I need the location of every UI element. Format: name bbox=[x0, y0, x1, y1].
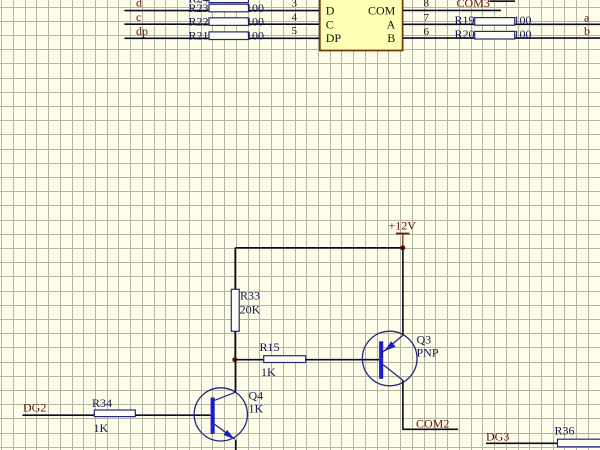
svg-text:DG3: DG3 bbox=[486, 430, 509, 444]
svg-text:DG2: DG2 bbox=[23, 401, 46, 415]
resistor R22 bbox=[189, 15, 265, 29]
wire rail down to R33 bbox=[234, 248, 236, 290]
wire +12V rail down to Q3 emitter bbox=[402, 248, 404, 335]
svg-text:B: B bbox=[387, 31, 395, 45]
resistor R36 bbox=[555, 423, 600, 447]
svg-text:20K: 20K bbox=[240, 303, 261, 317]
svg-text:b: b bbox=[584, 24, 590, 38]
svg-text:5: 5 bbox=[292, 25, 298, 37]
wire R15 to Q3 base bbox=[306, 359, 379, 361]
svg-text:R22: R22 bbox=[189, 15, 209, 29]
svg-text:R33: R33 bbox=[240, 289, 260, 303]
transistor Q3 PNP bbox=[362, 331, 438, 386]
junction at R15/R33/Q4 bbox=[232, 357, 237, 362]
svg-text:COM3: COM3 bbox=[457, 0, 490, 10]
transistor Q4 NPN bbox=[194, 388, 263, 441]
svg-text:100: 100 bbox=[514, 27, 532, 41]
svg-text:Q3: Q3 bbox=[417, 332, 432, 346]
svg-text:C: C bbox=[326, 17, 334, 31]
svg-text:DP: DP bbox=[326, 31, 342, 45]
wire DG3 to R36 bbox=[486, 442, 558, 444]
svg-text:8: 8 bbox=[424, 0, 430, 10]
svg-text:1K: 1K bbox=[94, 421, 109, 435]
power +12V bbox=[389, 219, 417, 248]
resistor R15 bbox=[260, 340, 306, 379]
svg-text:R20: R20 bbox=[455, 27, 475, 41]
svg-text:7: 7 bbox=[424, 12, 430, 24]
svg-text:100: 100 bbox=[246, 29, 264, 43]
svg-text:100: 100 bbox=[246, 1, 264, 15]
resistor R20 bbox=[455, 27, 532, 41]
junction at +12V rail bbox=[400, 245, 405, 250]
resistor R23 bbox=[189, 1, 265, 15]
wire d row bbox=[124, 10, 320, 12]
svg-text:COM2: COM2 bbox=[416, 416, 449, 430]
wire a row bbox=[403, 23, 600, 25]
wire Q4 collector up to junction bbox=[234, 360, 236, 393]
svg-text:d: d bbox=[136, 0, 142, 10]
wire junction to R15 bbox=[235, 359, 264, 361]
resistor R19 bbox=[455, 13, 532, 27]
svg-text:dp: dp bbox=[136, 24, 148, 38]
resistor R21 bbox=[189, 29, 265, 43]
partial resistor R24 (cut off at top) bbox=[189, 0, 249, 6]
wire Q3 collector down and COM2 bbox=[403, 380, 458, 429]
wire top rail horizontal bbox=[235, 247, 403, 249]
wire c row bbox=[124, 23, 320, 25]
wire dp row bbox=[124, 37, 320, 39]
svg-text:R21: R21 bbox=[189, 29, 209, 43]
IC U3 display driver box (partially cut off at top) bbox=[320, 0, 403, 51]
resistor R34 bbox=[92, 396, 135, 435]
svg-text:R23: R23 bbox=[189, 1, 209, 15]
svg-text:R15: R15 bbox=[260, 340, 280, 354]
svg-text:COM: COM bbox=[368, 4, 396, 18]
wire R33 bottom to junction bbox=[234, 331, 236, 359]
resistor R33 bbox=[231, 289, 260, 332]
svg-text:R36: R36 bbox=[555, 423, 575, 437]
svg-text:a: a bbox=[584, 10, 590, 24]
svg-text:R19: R19 bbox=[455, 13, 475, 27]
svg-text:100: 100 bbox=[246, 15, 264, 29]
svg-text:4: 4 bbox=[292, 12, 298, 24]
svg-text:+12V: +12V bbox=[389, 219, 417, 233]
svg-text:PNP: PNP bbox=[417, 345, 439, 359]
svg-text:6: 6 bbox=[424, 26, 430, 38]
wire Q4 emitter down bbox=[235, 440, 237, 450]
svg-text:c: c bbox=[136, 10, 141, 24]
wire b row bbox=[403, 37, 600, 39]
svg-text:1K: 1K bbox=[249, 402, 264, 416]
svg-text:R34: R34 bbox=[92, 396, 112, 410]
svg-text:A: A bbox=[387, 17, 396, 31]
wire DG2 to R34 bbox=[22, 414, 94, 416]
svg-text:D: D bbox=[326, 4, 335, 18]
wire R34 to Q4 base bbox=[135, 414, 210, 416]
svg-text:3: 3 bbox=[292, 0, 298, 10]
svg-text:100: 100 bbox=[514, 13, 532, 27]
wire stray top bbox=[490, 0, 516, 2]
wire COM3 row bbox=[403, 9, 501, 11]
svg-text:1K: 1K bbox=[261, 365, 276, 379]
